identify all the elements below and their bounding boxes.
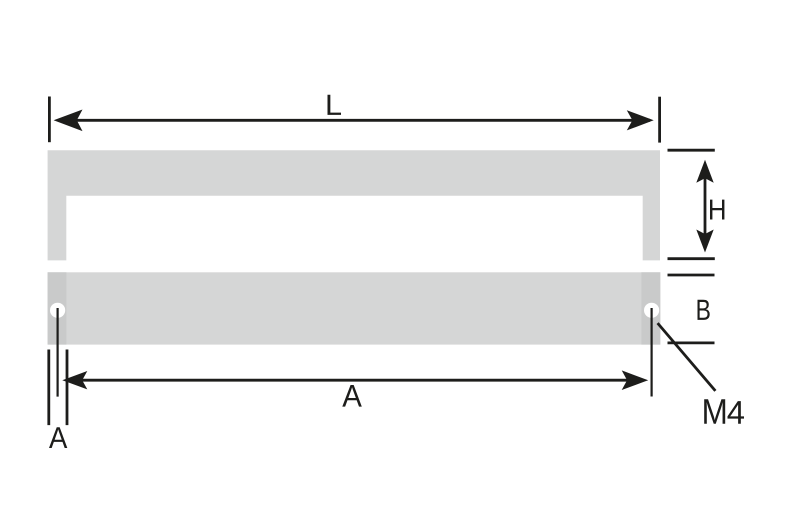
dimension H down arrowhead: [696, 230, 713, 253]
M4 leader line: [658, 323, 716, 391]
right hole centre line: [650, 308, 652, 397]
dimension A left arrowhead: [62, 371, 87, 389]
dimension A right arrowhead: [622, 370, 649, 390]
dimension L right arrowhead: [627, 110, 654, 130]
label A (hole distance): [342, 385, 362, 407]
handle side view (U-shape): [48, 150, 660, 260]
left hole: [50, 303, 65, 318]
small A right tick: [66, 350, 69, 426]
label A (edge offset): [49, 427, 67, 448]
dimension L left arrowhead: [54, 110, 83, 132]
right end cap: [641, 272, 660, 344]
label B: [697, 300, 709, 320]
dimension B bottom tick: [668, 341, 715, 344]
left hole centre line: [56, 308, 58, 397]
dimension H bottom tick: [668, 257, 715, 260]
dimension H shaft: [704, 172, 707, 240]
dimension H up arrowhead: [696, 160, 713, 183]
small A left tick: [47, 350, 50, 426]
handle top view bar: [48, 272, 661, 344]
right hole: [644, 303, 659, 318]
dimension B top tick: [668, 274, 715, 277]
label H: [710, 200, 724, 220]
label L: [328, 95, 341, 115]
dimension H top tick: [668, 149, 715, 152]
left end cap: [48, 272, 67, 344]
dimension L right extension tick: [658, 97, 661, 143]
label M4 digit: [728, 401, 745, 424]
dimension L left extension tick: [48, 97, 51, 143]
dimension A shaft: [68, 379, 643, 382]
dimension L shaft: [58, 119, 650, 122]
label M4: [704, 399, 725, 424]
